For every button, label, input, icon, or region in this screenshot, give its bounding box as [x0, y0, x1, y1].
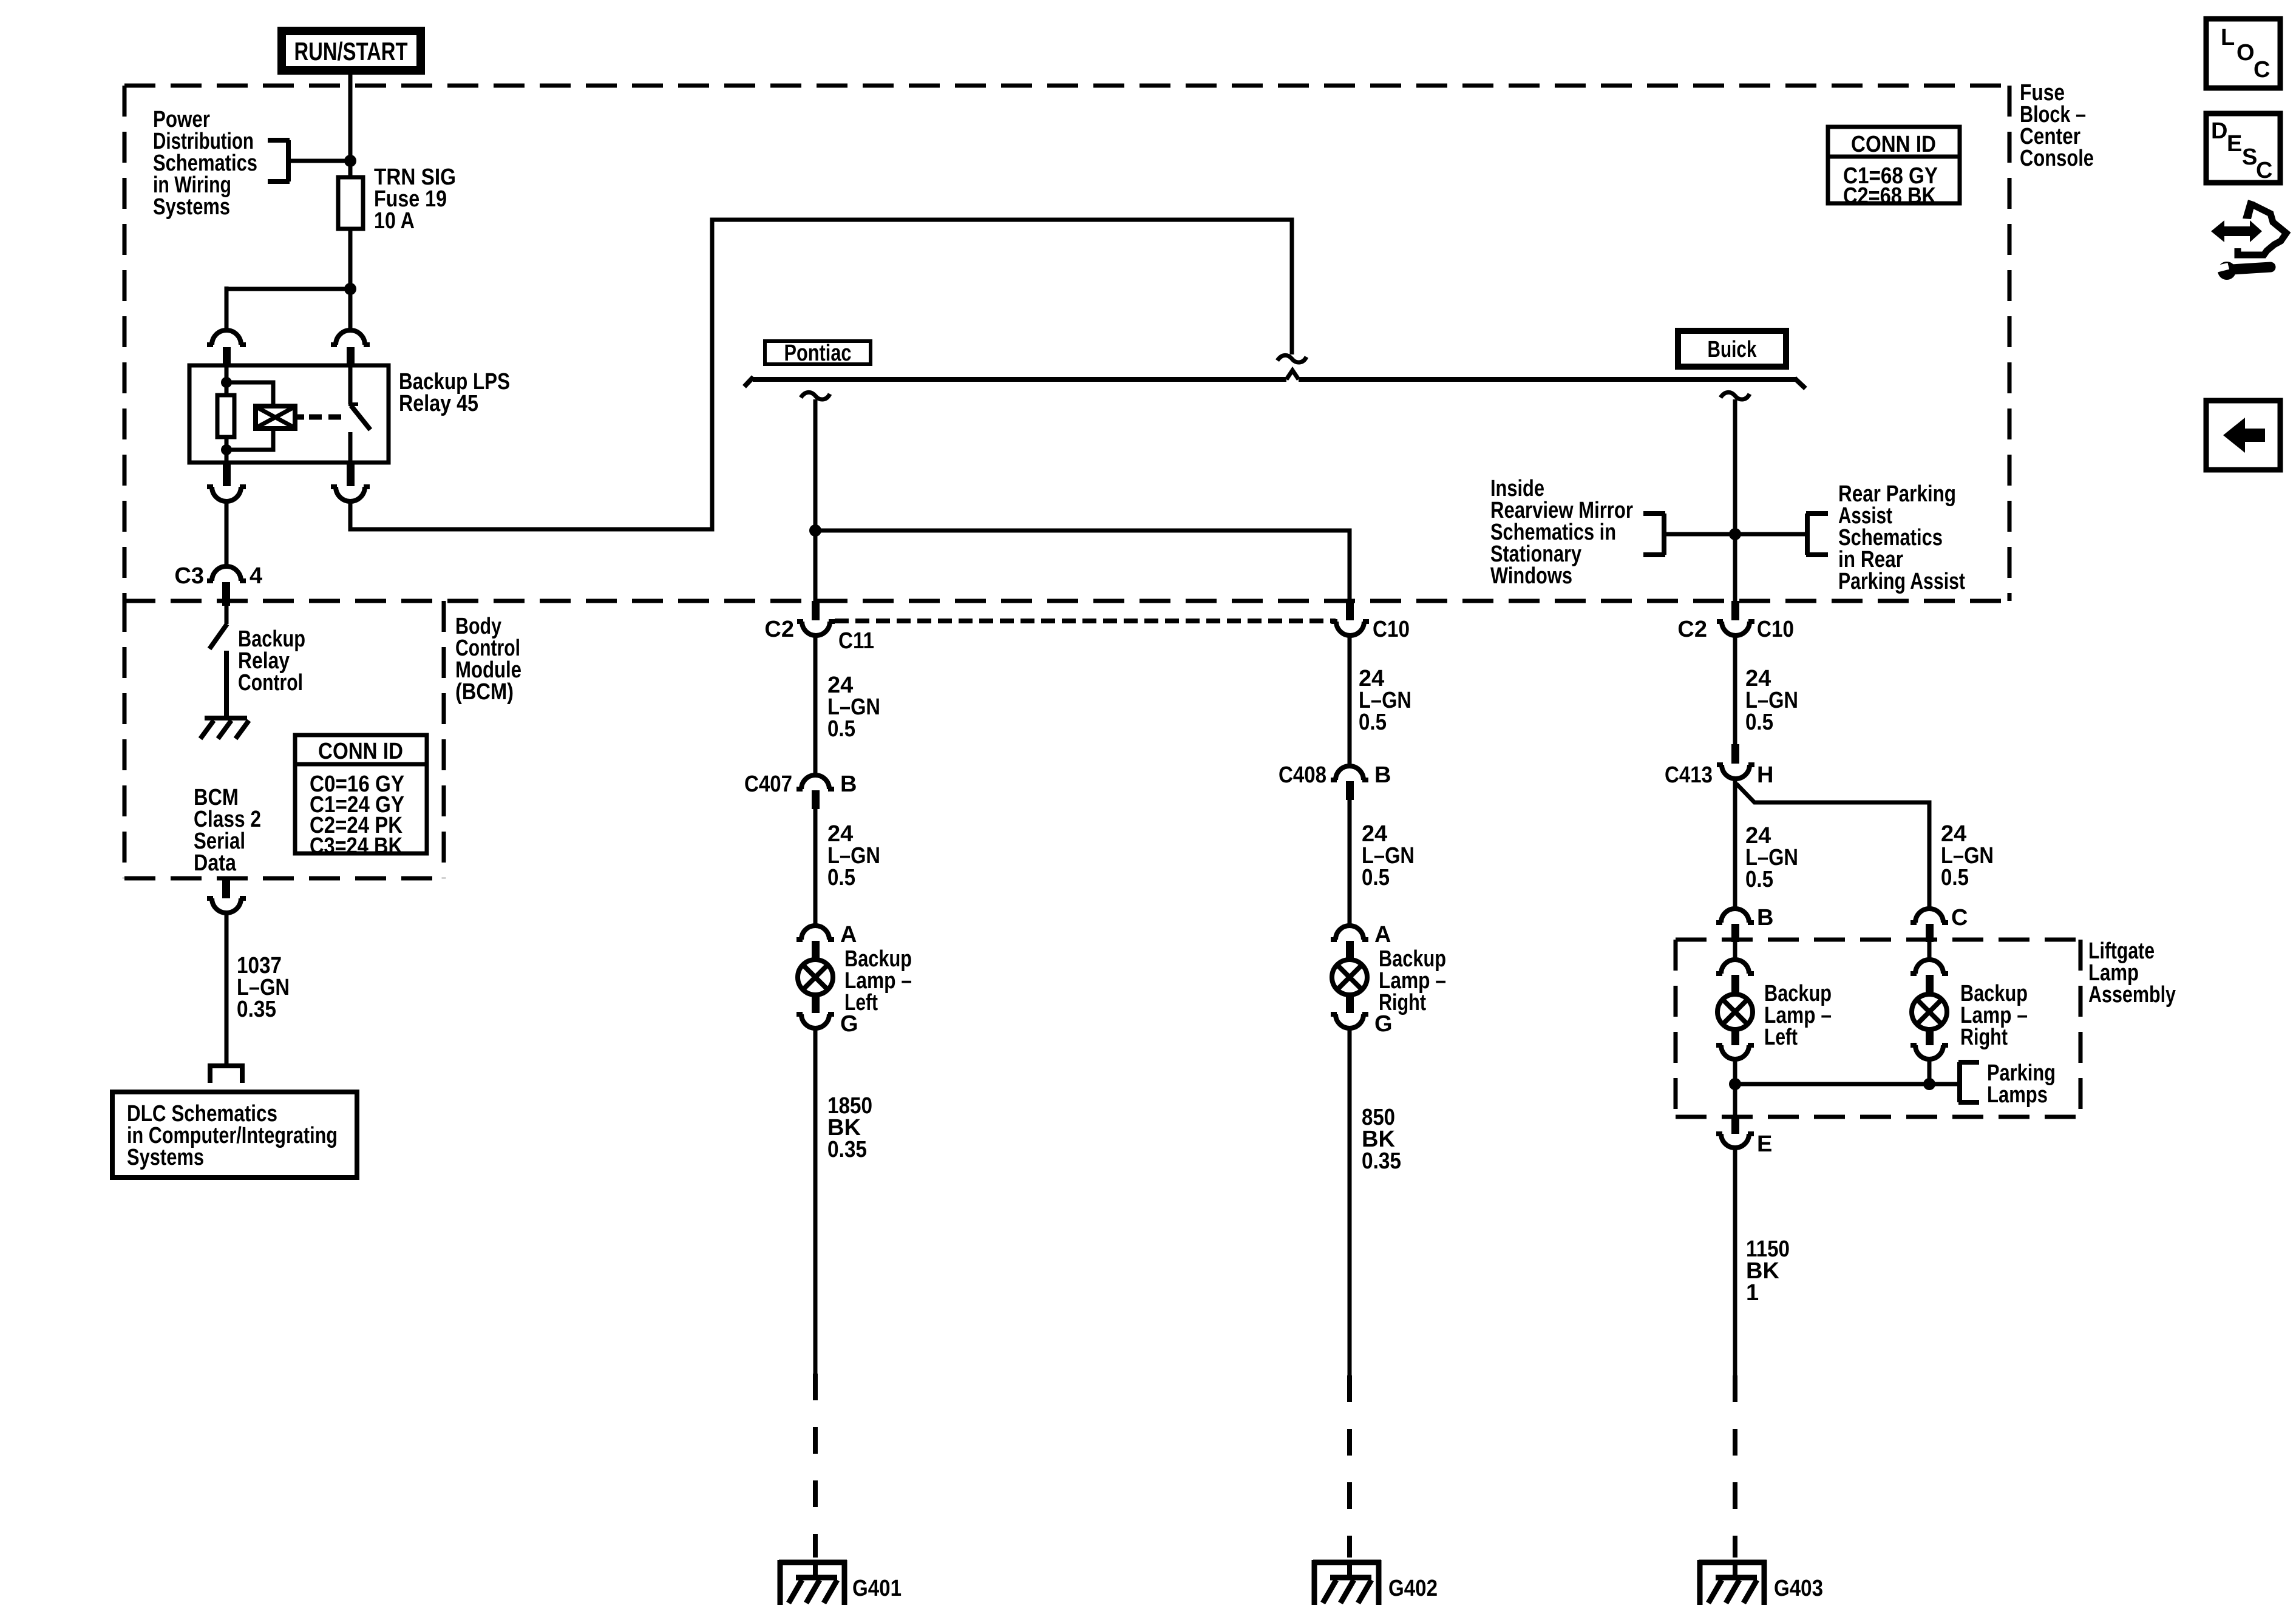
svg-text:C3=24 BK: C3=24 BK — [310, 833, 402, 859]
svg-text:A: A — [1374, 922, 1391, 947]
svg-text:C3: C3 — [174, 563, 204, 589]
label wire 24 L-GN 0.5 col1 lower — [827, 821, 880, 890]
wire cross horizontal — [1666, 532, 1805, 537]
icon DESC button — [2206, 114, 2280, 183]
svg-text:C2=68 BK: C2=68 BK — [1843, 183, 1936, 209]
svg-text:Right: Right — [1960, 1025, 2008, 1050]
wire 1037 L-GN 0.35 serial data — [225, 913, 229, 1065]
wire lamp right to common — [1927, 1060, 1932, 1084]
svg-text:0.5: 0.5 — [1362, 865, 1390, 890]
svg-text:C10: C10 — [1373, 617, 1410, 642]
ground G402 — [1313, 1560, 1381, 1605]
connector pin G lamp left — [796, 995, 834, 1028]
bracket to Rear Parking Assist schematics — [1806, 514, 1828, 555]
svg-text:0.5: 0.5 — [827, 865, 855, 890]
box Liftgate Lamp Assembly dashed — [1676, 940, 2080, 1117]
wire dashed ground run col3 — [1733, 1375, 1737, 1558]
wire 1850 BK ground run col1 — [813, 1029, 818, 1374]
connector pin A lamp left — [796, 926, 834, 959]
label Inside Rearview Mirror Schematics in Stationary Windows — [1490, 476, 1633, 589]
label TRN SIG Fuse 19 10 A — [374, 164, 456, 234]
connector pin G lamp right — [1331, 995, 1368, 1028]
wire dashed ground run col2 — [1347, 1375, 1352, 1558]
svg-text:G401: G401 — [852, 1576, 902, 1601]
label liftgate Backup Lamp Right — [1960, 981, 2028, 1050]
label wire 24 L-GN 0.5 Buick right — [1941, 821, 1994, 890]
svg-text:Relay 45: Relay 45 — [399, 391, 478, 416]
box DLC Schematics — [112, 1092, 357, 1178]
label wire 850 BK 0.35 — [1362, 1105, 1401, 1174]
icon back arrow button — [2206, 401, 2280, 470]
wire branch H to pin C — [1736, 784, 1929, 909]
wire lamp left to common — [1733, 1060, 1737, 1117]
connector relay pin top right — [331, 330, 370, 366]
bracket to DLC schematics — [208, 1066, 245, 1083]
svg-text:Buick: Buick — [1708, 337, 1758, 362]
wire Buick drop — [1733, 399, 1737, 618]
label wire 24 L-GN 0.5 col1 upper — [827, 673, 880, 742]
wire relay left internal — [225, 365, 229, 463]
label Backup LPS Relay 45 — [399, 369, 510, 416]
resistor relay internal — [217, 395, 234, 437]
node junction power distribution tap — [344, 155, 356, 167]
icon LOC button — [2206, 19, 2280, 88]
connector lamp left bottom liftgate — [1716, 1029, 1754, 1059]
svg-text:0.35: 0.35 — [1362, 1148, 1401, 1174]
svg-text:C2: C2 — [1677, 617, 1707, 642]
node junction rear harness cross — [1729, 528, 1741, 540]
label wire 24 L-GN 0.5 Buick upper — [1745, 666, 1798, 735]
wire harness bus Pontiac segment — [753, 377, 1286, 382]
node coil bottom junction — [221, 444, 232, 455]
svg-text:Systems: Systems — [153, 194, 230, 220]
label Power Distribution Schematics in Wiring Systems — [153, 107, 257, 220]
label wire 24 L-GN 0.5 col2 lower — [1362, 821, 1415, 890]
wire BCM dotted bus — [835, 619, 1336, 623]
wire common ground bus liftgate — [1735, 1082, 1957, 1086]
lamp Backup Lamp Right — [1332, 960, 1367, 995]
wire coil branch bottom — [226, 429, 273, 450]
svg-text:Windows: Windows — [1490, 563, 1572, 589]
svg-text:0.5: 0.5 — [827, 716, 855, 742]
wire junction to coil branch — [226, 287, 350, 291]
wire Pontiac drop — [813, 399, 818, 618]
svg-text:0.5: 0.5 — [1745, 710, 1773, 735]
icon flipchart arrow wrench — [2211, 200, 2286, 280]
wire pin C into liftgate — [1927, 942, 1932, 960]
svg-text:Pontiac: Pontiac — [784, 341, 852, 366]
node junction Pontiac branch — [809, 524, 821, 537]
node junction liftgate right — [1923, 1078, 1935, 1090]
wire C413 to pin B — [1733, 780, 1737, 909]
svg-text:G: G — [1374, 1011, 1393, 1037]
svg-text:S: S — [2242, 144, 2257, 170]
connector BCM serial data out — [207, 878, 246, 913]
lamp liftgate Backup Lamp Left — [1717, 994, 1753, 1029]
RUN/START power feed box — [282, 31, 421, 70]
svg-text:0.5: 0.5 — [1745, 867, 1773, 892]
connector pin A lamp right — [1331, 926, 1368, 959]
connector C2 C10 Buick — [1717, 601, 1754, 636]
svg-text:G: G — [840, 1011, 858, 1037]
svg-text:Control: Control — [238, 670, 303, 696]
wire relay to C3 — [225, 503, 229, 567]
svg-text:CONN ID: CONN ID — [1851, 132, 1936, 157]
switch backup relay control driver — [209, 606, 227, 718]
svg-text:O: O — [2237, 40, 2255, 66]
wire relay output run — [350, 220, 1292, 529]
svg-text:RUN/START: RUN/START — [294, 37, 408, 66]
label liftgate Backup Lamp Left — [1764, 981, 1832, 1050]
wire harness end tick right — [1795, 378, 1805, 388]
label wire 24 L-GN 0.5 Buick left — [1745, 823, 1798, 892]
connector pin B liftgate left — [1716, 909, 1754, 942]
BCM dashed box — [124, 601, 444, 878]
label Backup Lamp Left — [844, 946, 912, 1015]
wire dashed ground run col1 — [813, 1374, 818, 1558]
node coil top junction — [221, 377, 232, 388]
svg-text:0.35: 0.35 — [237, 997, 276, 1022]
wire pin B into liftgate — [1733, 942, 1737, 960]
box Pontiac — [765, 341, 871, 366]
connector relay pin top left — [207, 330, 246, 366]
wire branch to C10 — [815, 531, 1350, 618]
label wire 1037 L-GN 0.35 — [237, 953, 290, 1022]
lamp liftgate Backup Lamp Right — [1912, 994, 1947, 1029]
svg-text:Left: Left — [1764, 1025, 1798, 1050]
svg-text:G402: G402 — [1388, 1576, 1438, 1601]
connector C408 pin B — [1331, 766, 1368, 800]
svg-text:Console: Console — [2020, 146, 2094, 171]
wire hook Pontiac tap — [801, 392, 830, 399]
bracket to Power Distribution Schematics — [268, 140, 290, 181]
node junction liftgate left — [1729, 1078, 1741, 1090]
table CONN ID fuse block — [1828, 127, 1960, 209]
connector lamp right top liftgate — [1911, 960, 1948, 994]
svg-text:C: C — [2254, 57, 2270, 83]
svg-text:Lamps: Lamps — [1987, 1082, 2048, 1108]
svg-text:4: 4 — [250, 563, 262, 589]
svg-text:C: C — [2256, 158, 2272, 183]
connector C10 female column2 — [1331, 601, 1369, 636]
svg-text:C11: C11 — [838, 628, 874, 654]
wire 1150 BK ground run col3 — [1733, 1149, 1737, 1375]
wire harness break chevron — [1286, 370, 1299, 379]
label BCM Class 2 Serial Data — [194, 785, 261, 876]
svg-text:0.35: 0.35 — [827, 1137, 867, 1162]
label Backup Relay Control — [238, 626, 305, 696]
svg-text:E: E — [2227, 131, 2242, 157]
svg-text:B: B — [1757, 905, 1773, 931]
bracket to Parking Lamps — [1958, 1062, 1979, 1102]
relay K Backup LPS Relay 45 box — [189, 365, 389, 463]
wire C407 to lamp — [813, 809, 818, 926]
label Parking Lamps — [1987, 1060, 2056, 1108]
svg-text:Systems: Systems — [127, 1145, 204, 1170]
svg-text:Parking Assist: Parking Assist — [1838, 569, 1965, 594]
wire coil branch top — [226, 382, 273, 406]
svg-text:C2: C2 — [764, 617, 794, 642]
svg-text:C10: C10 — [1757, 617, 1794, 642]
svg-text:1: 1 — [1746, 1280, 1759, 1306]
lamp Backup Lamp Left — [798, 960, 833, 995]
table CONN ID BCM — [295, 735, 427, 859]
connector pin E liftgate — [1716, 1117, 1754, 1148]
ground G403 — [1699, 1560, 1767, 1605]
wire C408 to lamp right — [1348, 800, 1352, 926]
svg-text:0.5: 0.5 — [1359, 710, 1387, 735]
svg-text:10 A: 10 A — [374, 208, 415, 234]
connector C2 C11 female — [797, 601, 835, 636]
svg-text:C408: C408 — [1279, 762, 1326, 788]
wire harness bus Buick segment — [1299, 377, 1796, 382]
svg-text:(BCM): (BCM) — [455, 679, 514, 705]
label wire 1150 BK 1 — [1746, 1236, 1790, 1306]
wire to power distribution bracket — [290, 159, 350, 163]
svg-text:B: B — [840, 771, 857, 797]
svg-text:C413: C413 — [1665, 762, 1713, 788]
switch relay contact — [348, 365, 370, 463]
label wire 24 L-GN 0.5 col2 upper — [1359, 666, 1411, 735]
svg-text:C: C — [1951, 905, 1968, 931]
svg-text:A: A — [840, 922, 857, 947]
svg-text:D: D — [2211, 118, 2227, 144]
svg-text:H: H — [1757, 762, 1773, 788]
connector C3 pin 4 — [207, 566, 246, 606]
label Fuse Block - Center Console — [2020, 80, 2094, 171]
wire 850 BK ground run col2 — [1348, 1029, 1352, 1375]
wire C10 to C408 — [1348, 637, 1352, 766]
SEC_RIGHT — [1490, 127, 2176, 1605]
svg-text:G403: G403 — [1774, 1576, 1823, 1601]
wire C10 to C413 — [1733, 637, 1737, 745]
ground G401 — [779, 1560, 847, 1605]
svg-text:L: L — [2221, 25, 2235, 50]
label Rear Parking Assist Schematics in Rear Parking Assist — [1838, 481, 1965, 594]
wire dashed actuator link — [309, 415, 344, 420]
connector lamp right bottom liftgate — [1911, 1029, 1948, 1059]
fuse TRN SIG Fuse 19 — [338, 177, 363, 229]
svg-text:CONN ID: CONN ID — [318, 739, 403, 764]
bracket to Inside Rearview Mirror schematics — [1643, 514, 1665, 555]
svg-text:Assembly: Assembly — [2088, 982, 2176, 1008]
connector pin C liftgate right — [1911, 909, 1948, 942]
label wire 1850 BK 0.35 — [827, 1093, 872, 1162]
wire hook feed to harness — [1277, 355, 1306, 362]
connector relay pin bottom right — [331, 463, 370, 501]
connector lamp left top liftgate — [1716, 960, 1754, 994]
wire down to relay coil pin — [225, 286, 229, 332]
SEC_TOPLEFT — [112, 31, 2094, 1178]
SEC_MIDDLE — [350, 220, 1805, 1605]
label Liftgate Lamp Assembly — [2088, 938, 2176, 1008]
svg-text:Data: Data — [194, 850, 237, 876]
label Backup Lamp Right — [1379, 946, 1446, 1015]
label Body Control Module (BCM) — [455, 614, 521, 705]
coil relay winding symbol — [256, 406, 304, 429]
connector relay pin bottom left — [207, 463, 246, 501]
SEC_ICONS — [2206, 19, 2286, 470]
ground BCM internal chassis — [200, 718, 249, 739]
connector C407 pin B — [796, 775, 834, 809]
svg-text:C407: C407 — [744, 771, 792, 797]
wire hook Buick tap — [1720, 392, 1750, 399]
connector C413 pin H — [1717, 744, 1754, 779]
svg-text:B: B — [1374, 762, 1391, 788]
wire fuse to relay — [348, 229, 353, 332]
wire harness end tick left — [744, 377, 753, 387]
wire RUN/START to fuse — [348, 73, 353, 177]
svg-text:E: E — [1757, 1131, 1772, 1157]
svg-text:0.5: 0.5 — [1941, 865, 1969, 890]
node junction at relay feed — [344, 283, 356, 295]
wire C11 to C407 — [813, 637, 818, 775]
Fuse Block - Center Console dashed box — [124, 86, 2009, 601]
box Buick — [1678, 331, 1786, 367]
